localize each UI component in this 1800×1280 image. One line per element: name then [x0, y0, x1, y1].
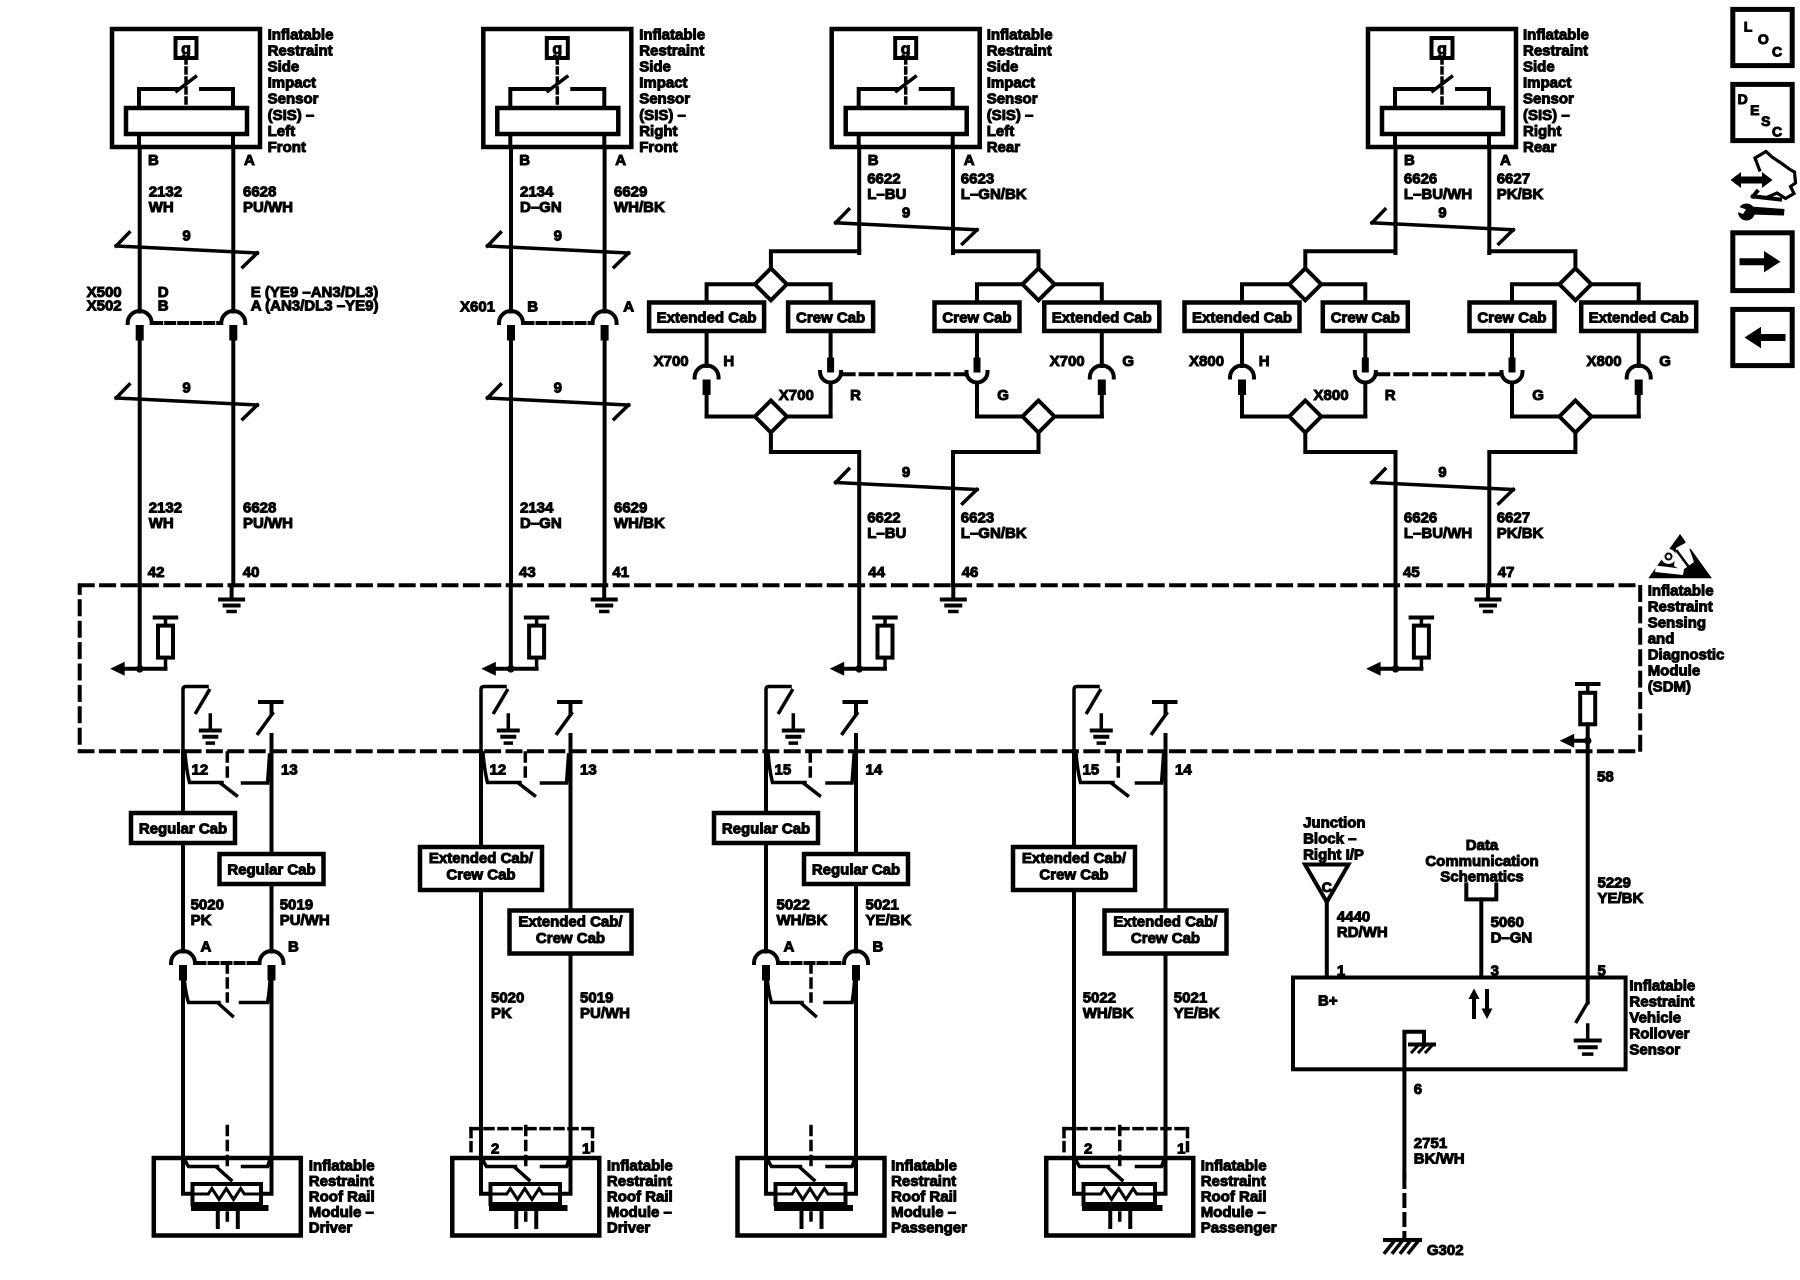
svg-text:Side: Side [987, 59, 1019, 76]
svg-text:Roof Rail: Roof Rail [309, 1189, 375, 1206]
svg-text:Front: Front [639, 139, 677, 156]
svg-text:Module –: Module – [607, 1204, 672, 1221]
svg-text:L–GN/BK: L–GN/BK [961, 525, 1027, 542]
svg-text:5021: 5021 [1174, 990, 1207, 1007]
svg-text:X502: X502 [87, 298, 122, 315]
svg-text:Data: Data [1466, 837, 1499, 854]
svg-text:D–GN: D–GN [520, 515, 562, 532]
svg-text:Crew Cab: Crew Cab [1477, 309, 1546, 326]
svg-text:B: B [288, 939, 299, 956]
svg-text:BK/WH: BK/WH [1414, 1151, 1465, 1168]
svg-text:YE/BK: YE/BK [1174, 1005, 1220, 1022]
svg-text:Driver: Driver [309, 1220, 353, 1237]
svg-text:Extended Cab: Extended Cab [1052, 309, 1152, 326]
svg-text:9: 9 [1438, 205, 1446, 222]
svg-text:Extended Cab: Extended Cab [657, 309, 757, 326]
svg-text:g: g [181, 41, 191, 58]
svg-text:Restraint: Restraint [607, 1173, 672, 1190]
svg-text:58: 58 [1597, 769, 1614, 786]
svg-text:E: E [1750, 102, 1759, 118]
svg-text:5060: 5060 [1491, 914, 1524, 931]
svg-text:Communication: Communication [1425, 853, 1538, 870]
svg-text:R: R [1385, 387, 1396, 404]
svg-text:14: 14 [866, 762, 883, 779]
svg-text:Restraint: Restraint [1629, 994, 1694, 1011]
svg-text:Restraint: Restraint [1201, 1173, 1266, 1190]
svg-text:Impact: Impact [1523, 75, 1571, 92]
svg-text:L: L [1744, 19, 1753, 35]
svg-text:2: 2 [1084, 1141, 1092, 1158]
svg-text:Rear: Rear [1523, 139, 1557, 156]
svg-text:Extended Cab/: Extended Cab/ [1113, 914, 1218, 931]
svg-text:Crew Cab: Crew Cab [1331, 309, 1400, 326]
svg-text:Impact: Impact [268, 75, 316, 92]
svg-text:2132: 2132 [149, 500, 182, 517]
svg-text:2134: 2134 [520, 500, 554, 517]
svg-text:PK: PK [491, 1005, 512, 1022]
svg-text:Right: Right [639, 123, 677, 140]
svg-text:9: 9 [182, 228, 190, 245]
svg-text:L–BU/WH: L–BU/WH [1404, 186, 1472, 203]
svg-text:6: 6 [1414, 1081, 1422, 1098]
svg-text:Rollover: Rollover [1629, 1025, 1689, 1042]
svg-text:Regular Cab: Regular Cab [722, 820, 810, 837]
svg-text:G: G [1122, 353, 1134, 370]
svg-text:(SIS) –: (SIS) – [1523, 107, 1570, 124]
svg-text:C: C [1772, 124, 1782, 140]
svg-text:Inflatable: Inflatable [309, 1158, 375, 1175]
svg-text:Crew Cab: Crew Cab [1039, 866, 1108, 883]
svg-text:PK/BK: PK/BK [1497, 525, 1544, 542]
svg-text:X601: X601 [460, 299, 495, 316]
svg-text:41: 41 [612, 564, 629, 581]
svg-text:Sensor: Sensor [1523, 91, 1574, 108]
svg-text:9: 9 [902, 205, 910, 222]
svg-text:Right: Right [1523, 123, 1561, 140]
svg-text:6627: 6627 [1497, 171, 1530, 188]
svg-text:B+: B+ [1318, 993, 1338, 1010]
svg-text:5021: 5021 [866, 897, 899, 914]
svg-text:6629: 6629 [614, 184, 647, 201]
svg-text:A: A [201, 939, 212, 956]
svg-text:15: 15 [1083, 762, 1100, 779]
svg-text:X800: X800 [1189, 353, 1224, 370]
svg-text:L–BU: L–BU [867, 186, 906, 203]
svg-text:45: 45 [1403, 564, 1420, 581]
svg-text:Left: Left [268, 123, 296, 140]
svg-text:Module –: Module – [309, 1204, 374, 1221]
svg-text:(SIS) –: (SIS) – [987, 107, 1034, 124]
svg-text:6622: 6622 [867, 509, 900, 526]
svg-text:6623: 6623 [961, 509, 994, 526]
svg-text:Inflatable: Inflatable [987, 26, 1053, 43]
svg-text:D: D [1738, 91, 1748, 107]
svg-text:14: 14 [1175, 762, 1192, 779]
svg-text:Inflatable: Inflatable [639, 26, 705, 43]
svg-text:1: 1 [1177, 1141, 1185, 1158]
svg-text:12: 12 [490, 762, 507, 779]
svg-text:PK: PK [191, 912, 212, 929]
svg-text:Rear: Rear [987, 139, 1021, 156]
svg-text:g: g [901, 41, 911, 58]
svg-text:Extended Cab/: Extended Cab/ [1022, 850, 1127, 867]
svg-text:Restraint: Restraint [309, 1173, 374, 1190]
svg-text:Sensor: Sensor [987, 91, 1038, 108]
svg-text:L–BU/WH: L–BU/WH [1404, 525, 1472, 542]
svg-text:O: O [1758, 31, 1769, 47]
svg-text:9: 9 [182, 380, 190, 397]
svg-text:9: 9 [1438, 464, 1446, 481]
svg-text:Passenger: Passenger [1201, 1220, 1277, 1237]
svg-text:6628: 6628 [243, 184, 276, 201]
svg-text:6628: 6628 [243, 500, 276, 517]
svg-text:(SIS) –: (SIS) – [268, 107, 315, 124]
svg-text:X800: X800 [1587, 353, 1622, 370]
svg-text:L–BU: L–BU [867, 525, 906, 542]
svg-text:B: B [148, 152, 159, 169]
svg-text:Front: Front [268, 139, 306, 156]
svg-text:A: A [623, 299, 634, 316]
svg-text:Extended Cab: Extended Cab [1192, 309, 1292, 326]
svg-text:A: A [1500, 152, 1511, 169]
svg-text:Extended Cab/: Extended Cab/ [429, 850, 534, 867]
svg-text:Inflatable: Inflatable [268, 26, 334, 43]
svg-text:WH/BK: WH/BK [777, 912, 828, 929]
svg-text:WH: WH [149, 199, 174, 216]
svg-text:13: 13 [281, 762, 298, 779]
svg-text:WH/BK: WH/BK [614, 515, 665, 532]
svg-text:G: G [1659, 353, 1671, 370]
svg-text:Module –: Module – [1201, 1204, 1266, 1221]
svg-text:Side: Side [268, 59, 300, 76]
svg-text:X700: X700 [1050, 353, 1085, 370]
svg-text:Restraint: Restraint [1523, 42, 1588, 59]
svg-text:A (AN3/DL3 –YE9): A (AN3/DL3 –YE9) [251, 298, 379, 315]
svg-text:B: B [873, 939, 884, 956]
svg-text:Sensor: Sensor [268, 91, 319, 108]
svg-text:H: H [1259, 353, 1270, 370]
svg-text:Restraint: Restraint [891, 1173, 956, 1190]
svg-text:B: B [519, 152, 530, 169]
svg-text:PU/WH: PU/WH [280, 912, 330, 929]
svg-text:5020: 5020 [491, 990, 524, 1007]
svg-text:D–GN: D–GN [520, 199, 562, 216]
svg-text:Inflatable: Inflatable [607, 1158, 673, 1175]
svg-text:Inflatable: Inflatable [1201, 1158, 1267, 1175]
svg-text:A: A [615, 152, 626, 169]
svg-text:G302: G302 [1427, 1242, 1464, 1259]
svg-text:9: 9 [554, 228, 562, 245]
svg-text:Junction: Junction [1303, 815, 1366, 832]
svg-text:5229: 5229 [1598, 875, 1631, 892]
svg-text:Right I/P: Right I/P [1303, 847, 1364, 864]
svg-text:L–GN/BK: L–GN/BK [961, 186, 1027, 203]
svg-text:Block –: Block – [1303, 831, 1356, 848]
svg-text:Crew Cab: Crew Cab [446, 866, 515, 883]
svg-text:Crew Cab: Crew Cab [536, 930, 605, 947]
svg-text:B: B [527, 299, 538, 316]
svg-text:13: 13 [580, 762, 597, 779]
svg-text:Diagnostic: Diagnostic [1648, 647, 1725, 664]
svg-text:Extended Cab: Extended Cab [1589, 309, 1689, 326]
svg-text:6626: 6626 [1404, 509, 1437, 526]
svg-text:D–GN: D–GN [1491, 930, 1533, 947]
svg-text:Restraint: Restraint [1648, 599, 1713, 616]
svg-text:Vehicle: Vehicle [1629, 1010, 1681, 1027]
svg-text:46: 46 [962, 564, 979, 581]
svg-text:(SIS) –: (SIS) – [639, 107, 686, 124]
svg-text:5019: 5019 [280, 897, 313, 914]
svg-text:S: S [1761, 113, 1770, 129]
svg-text:Restraint: Restraint [639, 42, 704, 59]
svg-text:and: and [1648, 631, 1675, 648]
svg-text:g: g [552, 41, 562, 58]
svg-text:Restraint: Restraint [987, 42, 1052, 59]
svg-text:9: 9 [554, 380, 562, 397]
svg-text:Restraint: Restraint [268, 42, 333, 59]
svg-text:H: H [723, 353, 734, 370]
svg-text:Regular Cab: Regular Cab [812, 861, 900, 878]
svg-text:Roof Rail: Roof Rail [1201, 1189, 1267, 1206]
svg-text:Sensor: Sensor [639, 91, 690, 108]
svg-text:Crew Cab: Crew Cab [1131, 930, 1200, 947]
svg-text:Driver: Driver [607, 1220, 651, 1237]
svg-text:B: B [1404, 152, 1415, 169]
svg-text:PU/WH: PU/WH [243, 515, 293, 532]
svg-text:PK/BK: PK/BK [1497, 186, 1544, 203]
svg-text:A: A [244, 152, 255, 169]
svg-text:Inflatable: Inflatable [1648, 583, 1714, 600]
svg-text:WH: WH [149, 515, 174, 532]
svg-text:6623: 6623 [961, 171, 994, 188]
svg-text:40: 40 [243, 564, 260, 581]
svg-text:Crew Cab: Crew Cab [942, 309, 1011, 326]
svg-text:YE/BK: YE/BK [1598, 890, 1644, 907]
svg-text:2751: 2751 [1414, 1135, 1447, 1152]
svg-text:B: B [868, 152, 879, 169]
svg-text:Side: Side [1523, 59, 1555, 76]
svg-text:Impact: Impact [987, 75, 1035, 92]
svg-text:Side: Side [639, 59, 671, 76]
svg-text:Sensing: Sensing [1648, 615, 1706, 632]
svg-text:Extended Cab/: Extended Cab/ [518, 914, 623, 931]
svg-text:Inflatable: Inflatable [1629, 978, 1695, 995]
svg-text:6629: 6629 [614, 500, 647, 517]
svg-text:Crew Cab: Crew Cab [796, 309, 865, 326]
svg-text:R: R [850, 387, 861, 404]
svg-text:6626: 6626 [1404, 171, 1437, 188]
svg-text:5019: 5019 [580, 990, 613, 1007]
svg-text:Module: Module [1648, 663, 1701, 680]
svg-text:5022: 5022 [777, 897, 810, 914]
svg-text:5022: 5022 [1083, 990, 1116, 1007]
svg-text:A: A [964, 152, 975, 169]
svg-text:5020: 5020 [191, 897, 224, 914]
svg-text:Passenger: Passenger [891, 1220, 967, 1237]
svg-text:2134: 2134 [520, 184, 554, 201]
svg-text:44: 44 [868, 564, 885, 581]
svg-text:Left: Left [987, 123, 1015, 140]
svg-text:42: 42 [148, 564, 165, 581]
svg-text:9: 9 [902, 464, 910, 481]
svg-text:6627: 6627 [1497, 509, 1530, 526]
svg-text:Inflatable: Inflatable [1523, 26, 1589, 43]
svg-text:Roof Rail: Roof Rail [891, 1189, 957, 1206]
svg-text:2132: 2132 [149, 184, 182, 201]
svg-text:Impact: Impact [639, 75, 687, 92]
svg-text:X800: X800 [1314, 387, 1349, 404]
svg-text:A: A [784, 939, 795, 956]
svg-text:Regular Cab: Regular Cab [139, 820, 227, 837]
svg-text:C: C [1772, 43, 1782, 59]
svg-text:Sensor: Sensor [1629, 1041, 1680, 1058]
svg-text:15: 15 [775, 762, 792, 779]
svg-text:WH/BK: WH/BK [1083, 1005, 1134, 1022]
svg-text:C: C [1322, 879, 1332, 895]
svg-text:6622: 6622 [867, 171, 900, 188]
svg-text:2: 2 [491, 1141, 499, 1158]
svg-text:G: G [997, 387, 1009, 404]
svg-text:Roof Rail: Roof Rail [607, 1189, 673, 1206]
svg-text:Module –: Module – [891, 1204, 956, 1221]
svg-text:G: G [1532, 387, 1544, 404]
svg-text:g: g [1437, 41, 1447, 58]
svg-text:PU/WH: PU/WH [580, 1005, 630, 1022]
svg-text:1: 1 [582, 1141, 590, 1158]
svg-text:PU/WH: PU/WH [243, 199, 293, 216]
svg-text:4440: 4440 [1337, 908, 1370, 925]
svg-text:X700: X700 [779, 387, 814, 404]
svg-text:43: 43 [519, 564, 536, 581]
svg-text:Schematics: Schematics [1440, 869, 1523, 886]
svg-text:B: B [158, 298, 169, 315]
svg-text:X700: X700 [654, 353, 689, 370]
svg-text:WH/BK: WH/BK [614, 199, 665, 216]
svg-text:47: 47 [1498, 564, 1515, 581]
svg-text:12: 12 [192, 762, 209, 779]
svg-text:YE/BK: YE/BK [866, 912, 912, 929]
svg-text:(SDM): (SDM) [1648, 679, 1691, 696]
svg-text:Inflatable: Inflatable [891, 1158, 957, 1175]
svg-text:Regular Cab: Regular Cab [227, 861, 315, 878]
svg-text:RD/WH: RD/WH [1337, 924, 1388, 941]
